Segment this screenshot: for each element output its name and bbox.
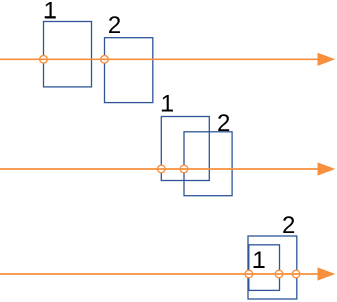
intersection marker (row 3, outer rect right edge)	[292, 270, 300, 278]
rectangle 2 (row 1)	[105, 38, 153, 103]
label 1 (row 1)	[44, 0, 57, 24]
rectangle 1 (row 1)	[44, 22, 92, 87]
svg-text:2: 2	[108, 12, 121, 39]
rectangle 2 outer (row 3)	[248, 236, 297, 299]
intersection marker (row 1, rect 1 left edge)	[40, 56, 48, 64]
arrowhead (row 1)	[318, 53, 336, 66]
intersection marker (row 3, left edges)	[245, 270, 253, 278]
arrow line (row 3)	[0, 273, 319, 275]
arrowhead (row 2)	[318, 162, 336, 175]
arrowhead (row 3)	[318, 267, 336, 280]
intersection marker (row 2, rect 1 left edge)	[158, 165, 166, 173]
rectangle 1 (row 2)	[161, 117, 209, 181]
intersection marker (row 2, rect 2 left edge)	[180, 165, 188, 173]
svg-text:1: 1	[252, 247, 265, 274]
intersection marker (row 1, rect 2 left edge)	[101, 56, 109, 64]
svg-text:2: 2	[282, 212, 295, 239]
svg-text:1: 1	[161, 91, 174, 118]
svg-text:1: 1	[44, 0, 57, 24]
arrow line (row 1)	[0, 58, 319, 60]
rectangle 1 inner (row 3)	[249, 245, 280, 291]
intersection marker (row 3, inner rect right edge)	[275, 270, 283, 278]
label 1 (row 3)	[252, 247, 265, 274]
arrow line (row 2)	[0, 168, 319, 170]
rectangle 2 (row 2)	[184, 132, 232, 196]
label 1 (row 2)	[161, 91, 174, 118]
svg-text:2: 2	[217, 110, 230, 137]
